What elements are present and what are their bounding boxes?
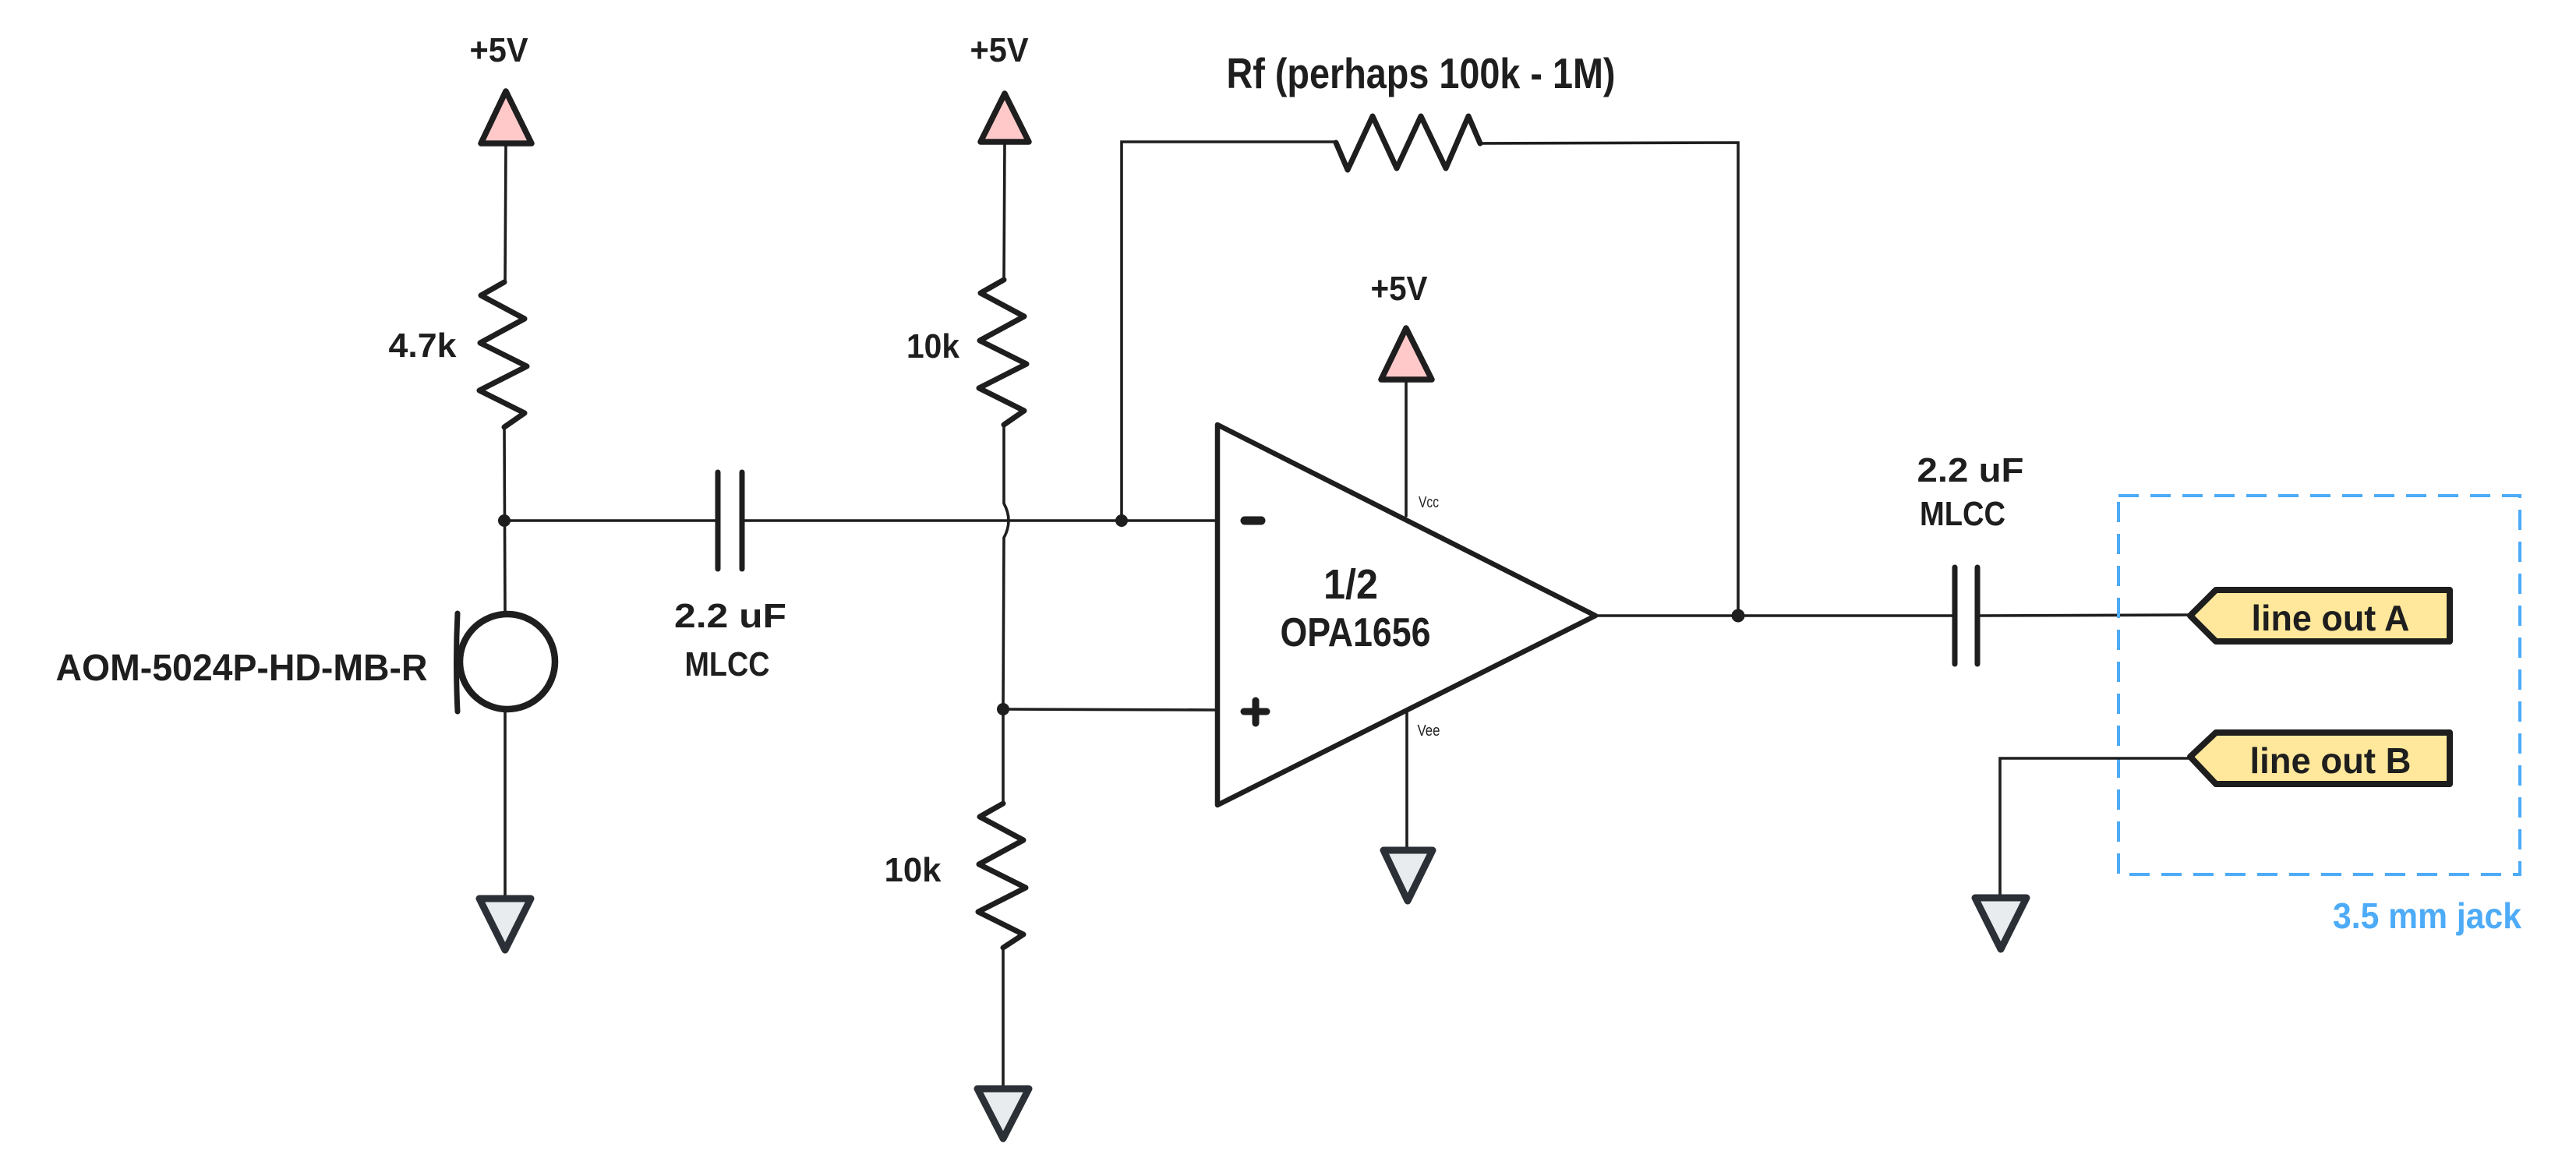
node junction output/feedback — [1732, 609, 1745, 623]
svg-text:Rf (perhaps 100k - 1M): Rf (perhaps 100k - 1M) — [1227, 49, 1616, 97]
svg-text:4.7k: 4.7k — [389, 327, 458, 365]
wire midpoint down to R3 — [1002, 709, 1005, 803]
ground (divider) — [977, 1089, 1029, 1139]
microphone AOM-5024P-HD-MB-R symbol — [457, 613, 556, 712]
svg-text:10k: 10k — [885, 851, 942, 889]
svg-text:line out B: line out B — [2250, 740, 2412, 781]
wire node to C1 — [504, 519, 717, 522]
feedback wire up from inverting node — [1122, 142, 1336, 521]
svg-text:3.5 mm jack: 3.5 mm jack — [2333, 895, 2521, 936]
svg-text:MLCC: MLCC — [1920, 495, 2005, 533]
svg-text:OPA1656: OPA1656 — [1281, 610, 1431, 655]
node junction mic/R1/C1 — [498, 514, 511, 527]
non-inverting input plus sign — [1244, 701, 1267, 723]
node tag line out A — [2190, 590, 2450, 641]
svg-text:2.2 uF: 2.2 uF — [674, 597, 786, 635]
svg-text:MLCC: MLCC — [685, 645, 770, 683]
node junction feedback / inverting input — [1115, 514, 1128, 527]
svg-text:+5V: +5V — [470, 31, 529, 69]
capacitor C1 2.2uF MLCC — [718, 472, 742, 569]
resistor R1 4.7k — [479, 282, 527, 427]
wire R1 to mic node — [504, 427, 505, 613]
op-amp U1 1/2 OPA1656 — [1217, 425, 1595, 805]
+5V power symbol (divider supply) — [981, 94, 1029, 142]
inverting input minus sign — [1245, 517, 1261, 525]
svg-text:line out A: line out A — [2252, 598, 2410, 638]
ground (op-amp Vee) — [1383, 850, 1433, 901]
wire R3 to ground — [1002, 948, 1005, 1089]
feedback wire right segment down to output node — [1480, 143, 1738, 616]
wire C2 to line out A — [1977, 615, 2190, 616]
ground (mic) — [479, 899, 531, 950]
svg-text:Vee: Vee — [1418, 722, 1440, 740]
svg-text:1/2: 1/2 — [1323, 561, 1378, 608]
wire Vee stem to ground — [1405, 710, 1408, 850]
wire R2 down through crossing to divider midpoint — [1003, 425, 1009, 709]
wire line out B to ground — [2000, 758, 2190, 898]
resistor R2 10k (upper divider) — [979, 280, 1027, 425]
svg-text:AOM-5024P-HD-MB-R: AOM-5024P-HD-MB-R — [56, 648, 428, 689]
svg-text:+5V: +5V — [1371, 270, 1429, 308]
wire divider midpoint to non-inverting input — [1003, 709, 1217, 710]
resistor Rf feedback — [1336, 116, 1480, 170]
svg-text:2.2 uF: 2.2 uF — [1917, 451, 2024, 489]
+5V power symbol (left supply) — [481, 91, 532, 143]
3.5 mm jack dashed enclosure — [2118, 496, 2520, 874]
node tag line out B — [2190, 733, 2450, 784]
resistor R3 10k (lower divider) — [978, 803, 1026, 948]
wire Vcc supply stem — [1405, 380, 1408, 516]
wire +5V to R2 — [1004, 142, 1005, 280]
svg-text:10k: 10k — [906, 327, 959, 366]
wire +5V to R1 — [505, 143, 506, 282]
+5V power symbol (op-amp Vcc) — [1381, 328, 1432, 380]
wire C1 to inverting input (with hop over divider wire) — [744, 519, 1217, 522]
svg-text:+5V: +5V — [970, 31, 1030, 69]
wire mic to ground — [504, 710, 507, 899]
ground (line out B) — [1975, 898, 2027, 949]
svg-text:Vcc: Vcc — [1419, 494, 1439, 511]
node junction divider midpoint — [997, 703, 1009, 715]
wire op-amp output to C2 — [1595, 614, 1955, 617]
capacitor C2 2.2uF MLCC — [1955, 567, 1977, 664]
